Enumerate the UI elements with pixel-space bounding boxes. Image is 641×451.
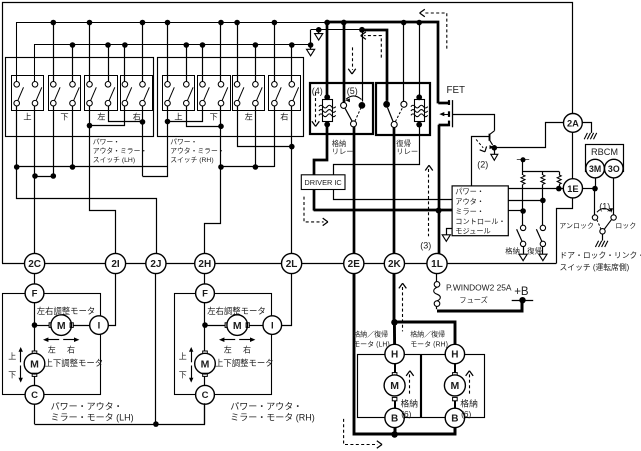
svg-text:左右調整モータ: 左右調整モータ <box>207 306 266 316</box>
svg-text:M: M <box>390 380 399 392</box>
svg-text:アウタ・: アウタ・ <box>455 197 484 206</box>
svg-text:2C: 2C <box>28 259 41 270</box>
svg-text:M: M <box>30 358 39 370</box>
svg-text:上: 上 <box>8 352 16 361</box>
svg-text:ドア・ロック・リンク・: ドア・ロック・リンク・ <box>560 251 641 260</box>
svg-text:H: H <box>451 349 458 360</box>
svg-text:モータ (RH): モータ (RH) <box>410 340 448 349</box>
svg-text:2J: 2J <box>150 259 161 270</box>
svg-text:2I: 2I <box>111 259 120 270</box>
svg-text:左: 左 <box>245 111 253 121</box>
svg-text:P.WINDOW2 25A: P.WINDOW2 25A <box>446 283 512 293</box>
svg-text:3O: 3O <box>608 164 620 174</box>
svg-text:アウタ・ミラー・: アウタ・ミラー・ <box>93 146 147 155</box>
svg-text:上下調整モータ: 上下調整モータ <box>45 358 104 368</box>
svg-text:F: F <box>202 289 208 300</box>
svg-text:パワー・アウタ・: パワー・アウタ・ <box>51 401 123 411</box>
svg-text:I: I <box>98 321 101 332</box>
svg-text:下: 下 <box>210 112 218 121</box>
svg-text:上: 上 <box>174 112 182 121</box>
svg-text:アンロック: アンロック <box>559 222 594 230</box>
svg-text:M: M <box>451 380 460 392</box>
svg-text:B: B <box>451 413 458 424</box>
svg-text:格納: 格納 <box>401 398 419 409</box>
svg-text:下: 下 <box>179 370 187 379</box>
svg-text:(6): (6) <box>401 409 411 419</box>
svg-text:コントロール・: コントロール・ <box>455 217 505 226</box>
svg-text:格納: 格納 <box>460 398 478 409</box>
svg-text:上下調整モータ: 上下調整モータ <box>215 358 274 368</box>
svg-text:2E: 2E <box>348 259 361 270</box>
svg-text:M: M <box>201 358 210 370</box>
svg-text:左: 左 <box>224 345 232 355</box>
svg-text:格納／復帰: 格納／復帰 <box>410 329 445 338</box>
svg-text:ロック: ロック <box>615 222 636 230</box>
svg-text:ミラー・モータ (LH): ミラー・モータ (LH) <box>51 413 134 423</box>
svg-text:アウタ・ミラー・: アウタ・ミラー・ <box>170 146 224 155</box>
svg-text:2H: 2H <box>198 259 211 270</box>
svg-text:1E: 1E <box>567 184 578 194</box>
svg-text:モジュール: モジュール <box>455 227 490 236</box>
svg-text:右: 右 <box>243 345 251 355</box>
svg-text:パワー・: パワー・ <box>455 187 484 196</box>
svg-text:RBCM: RBCM <box>591 147 618 157</box>
svg-text:右: 右 <box>67 345 75 355</box>
svg-text:FET: FET <box>447 85 466 96</box>
svg-text:2A: 2A <box>567 118 579 128</box>
svg-text:+B: +B <box>514 286 529 298</box>
svg-text:右: 右 <box>133 111 141 121</box>
svg-text:ミラー・: ミラー・ <box>455 207 484 216</box>
svg-text:M: M <box>233 320 242 332</box>
svg-text:パワー・: パワー・ <box>93 138 120 146</box>
svg-text:スイッチ (LH): スイッチ (LH) <box>93 156 135 164</box>
svg-text:2K: 2K <box>388 259 402 270</box>
svg-text:上: 上 <box>179 352 187 361</box>
svg-text:スイッチ (運転席側): スイッチ (運転席側) <box>560 262 630 272</box>
svg-text:(4): (4) <box>312 86 323 96</box>
svg-text:パワー・アウタ・: パワー・アウタ・ <box>230 401 302 411</box>
svg-text:ミラー・モータ (RH): ミラー・モータ (RH) <box>230 413 314 423</box>
svg-text:左右調整モータ: 左右調整モータ <box>37 306 96 316</box>
svg-text:(5): (5) <box>347 86 358 96</box>
svg-text:下: 下 <box>60 112 68 121</box>
svg-text:モータ (LH): モータ (LH) <box>353 340 390 349</box>
svg-text:F: F <box>32 289 38 300</box>
svg-text:パワー・: パワー・ <box>170 138 197 146</box>
svg-text:リレー: リレー <box>332 147 354 156</box>
svg-text:下: 下 <box>8 370 16 379</box>
svg-text:C: C <box>202 390 209 401</box>
svg-text:(6): (6) <box>461 409 471 419</box>
svg-text:リレー: リレー <box>396 147 418 156</box>
svg-text:右: 右 <box>280 111 288 121</box>
svg-text:(1): (1) <box>599 202 610 212</box>
svg-text:B: B <box>391 413 398 424</box>
svg-text:フューズ: フューズ <box>459 295 487 304</box>
svg-text:上: 上 <box>23 112 31 121</box>
svg-text:1L: 1L <box>431 259 443 270</box>
svg-text:左: 左 <box>97 111 105 121</box>
svg-text:左: 左 <box>48 345 56 355</box>
svg-text:2L: 2L <box>286 259 298 270</box>
svg-text:M: M <box>57 320 66 332</box>
svg-text:格納／復帰: 格納／復帰 <box>353 329 388 338</box>
svg-text:H: H <box>391 349 398 360</box>
svg-text:(2): (2) <box>477 159 488 169</box>
svg-text:(3): (3) <box>420 241 431 251</box>
svg-text:スイッチ (RH): スイッチ (RH) <box>170 156 213 164</box>
svg-text:C: C <box>31 390 38 401</box>
svg-text:格納: 格納 <box>505 246 520 255</box>
svg-text:3M: 3M <box>589 164 601 174</box>
svg-text:DRIVER IC: DRIVER IC <box>304 178 342 187</box>
svg-text:I: I <box>271 321 274 332</box>
svg-text:復帰: 復帰 <box>527 246 542 255</box>
